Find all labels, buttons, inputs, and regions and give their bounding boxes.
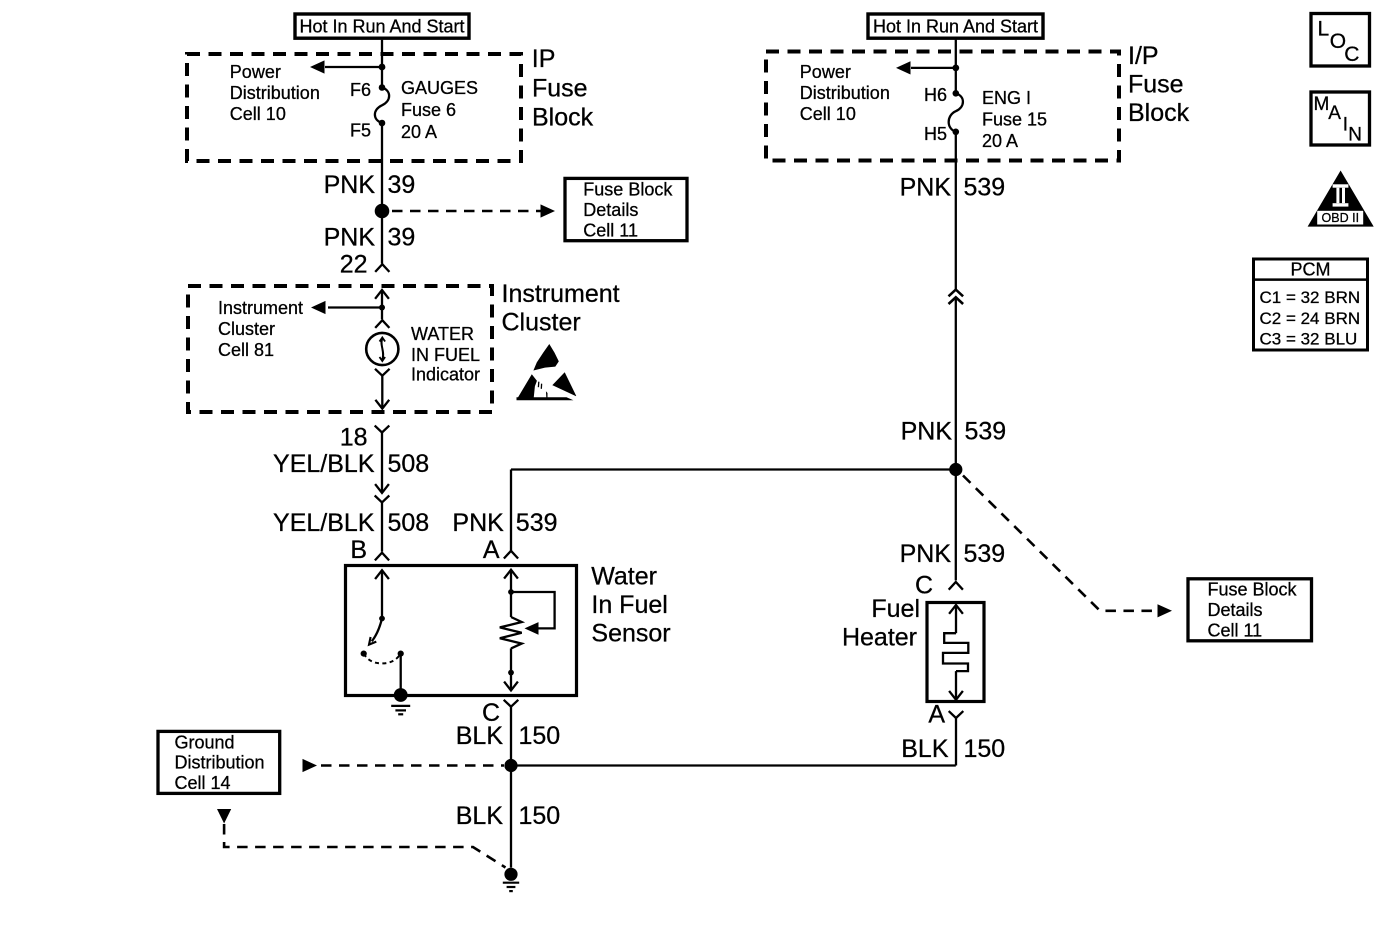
svg-text:Details: Details — [1208, 600, 1263, 620]
svg-text:L: L — [1318, 17, 1330, 40]
svg-text:A: A — [928, 701, 945, 729]
svg-text:20 A: 20 A — [401, 122, 437, 142]
svg-text:18: 18 — [340, 424, 368, 452]
svg-text:Hot In Run And Start: Hot In Run And Start — [299, 16, 464, 36]
svg-text:PNK: PNK — [900, 174, 952, 202]
svg-text:F5: F5 — [350, 121, 371, 141]
svg-text:39: 39 — [388, 224, 416, 252]
svg-text:150: 150 — [519, 802, 561, 830]
svg-text:Sensor: Sensor — [591, 620, 670, 648]
svg-text:Water: Water — [591, 563, 657, 591]
svg-text:20 A: 20 A — [982, 131, 1018, 151]
svg-text:508: 508 — [388, 450, 430, 478]
svg-text:PNK: PNK — [324, 171, 376, 199]
svg-text:39: 39 — [388, 171, 416, 199]
svg-text:Fuel: Fuel — [871, 595, 920, 623]
svg-text:C1 = 32 BRN: C1 = 32 BRN — [1260, 288, 1361, 307]
svg-text:A: A — [483, 536, 500, 564]
svg-text:Cell 14: Cell 14 — [175, 773, 231, 793]
svg-text:Fuse 6: Fuse 6 — [401, 100, 456, 120]
svg-text:C2 = 24 BRN: C2 = 24 BRN — [1260, 309, 1361, 328]
svg-text:Distribution: Distribution — [175, 753, 265, 773]
svg-text:Fuse Block: Fuse Block — [583, 180, 673, 200]
svg-text:YEL/BLK: YEL/BLK — [273, 509, 375, 537]
svg-text:Distribution: Distribution — [800, 83, 890, 103]
svg-text:Fuse Block: Fuse Block — [1208, 580, 1298, 600]
svg-text:Fuse: Fuse — [1128, 71, 1184, 99]
svg-text:PNK: PNK — [324, 224, 376, 252]
svg-text:Block: Block — [532, 103, 594, 131]
svg-text:Hot In Run And Start: Hot In Run And Start — [873, 16, 1038, 36]
svg-text:Power: Power — [230, 62, 281, 82]
svg-text:Heater: Heater — [842, 624, 917, 652]
svg-text:Cell 11: Cell 11 — [1208, 620, 1263, 640]
svg-text:BLK: BLK — [456, 802, 504, 830]
svg-text:539: 539 — [516, 509, 558, 537]
svg-text:B: B — [350, 536, 367, 564]
svg-text:Fuse: Fuse — [532, 74, 588, 102]
svg-text:Instrument: Instrument — [502, 280, 620, 308]
svg-text:539: 539 — [964, 174, 1006, 202]
svg-text:Power: Power — [800, 62, 851, 82]
svg-text:F6: F6 — [350, 80, 371, 100]
svg-text:I/P: I/P — [1128, 42, 1159, 70]
svg-text:Cell 10: Cell 10 — [800, 104, 856, 124]
svg-text:H6: H6 — [924, 85, 947, 105]
svg-text:H5: H5 — [924, 124, 947, 144]
svg-text:Distribution: Distribution — [230, 83, 320, 103]
svg-text:BLK: BLK — [456, 722, 504, 750]
svg-text:Ground: Ground — [175, 732, 235, 752]
svg-text:BLK: BLK — [901, 735, 949, 763]
svg-text:A: A — [1328, 103, 1341, 124]
svg-text:Details: Details — [583, 200, 638, 220]
svg-text:C: C — [1344, 43, 1359, 66]
svg-text:Indicator: Indicator — [411, 365, 480, 385]
svg-text:Instrument: Instrument — [218, 298, 303, 318]
svg-text:YEL/BLK: YEL/BLK — [273, 450, 375, 478]
svg-text:IP: IP — [532, 45, 556, 73]
svg-text:539: 539 — [965, 418, 1007, 446]
svg-text:Cell 10: Cell 10 — [230, 104, 286, 124]
svg-text:PNK: PNK — [901, 418, 953, 446]
svg-text:PNK: PNK — [452, 509, 504, 537]
svg-text:150: 150 — [519, 722, 561, 750]
svg-text:C3 = 32 BLU: C3 = 32 BLU — [1260, 330, 1358, 349]
svg-text:508: 508 — [388, 509, 430, 537]
svg-text:539: 539 — [964, 540, 1006, 568]
svg-text:Cell 81: Cell 81 — [218, 340, 274, 360]
svg-text:Cell 11: Cell 11 — [583, 220, 638, 240]
svg-text:IN FUEL: IN FUEL — [411, 345, 480, 365]
svg-text:OBD II: OBD II — [1322, 211, 1360, 225]
svg-text:ENG I: ENG I — [982, 88, 1031, 108]
svg-text:PCM: PCM — [1291, 260, 1331, 280]
svg-text:Cluster: Cluster — [218, 319, 275, 339]
svg-text:WATER: WATER — [411, 324, 474, 344]
svg-text:Fuse 15: Fuse 15 — [982, 110, 1047, 130]
svg-text:150: 150 — [964, 735, 1006, 763]
svg-text:PNK: PNK — [900, 540, 952, 568]
svg-text:I: I — [1343, 114, 1348, 135]
svg-text:22: 22 — [340, 250, 368, 278]
svg-text:Block: Block — [1128, 99, 1190, 127]
svg-text:GAUGES: GAUGES — [401, 78, 478, 98]
svg-text:M: M — [1314, 94, 1330, 115]
svg-text:In Fuel: In Fuel — [591, 591, 667, 619]
svg-text:N: N — [1348, 124, 1362, 145]
svg-text:Cluster: Cluster — [502, 308, 581, 336]
